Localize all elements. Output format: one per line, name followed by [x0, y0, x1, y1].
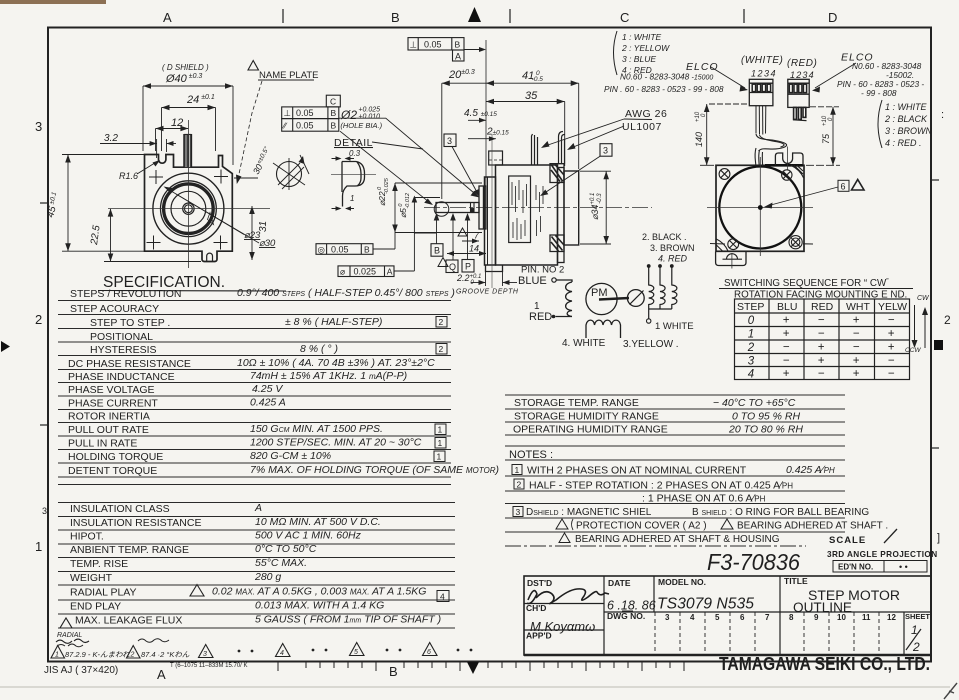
svg-text:8: 8: [789, 613, 794, 622]
svg-text:- 99 - 808: - 99 - 808: [861, 88, 897, 98]
svg-text:3 : BROWN: 3 : BROWN: [885, 126, 933, 136]
svg-text:MODEL NO.: MODEL NO.: [658, 577, 706, 587]
awg leader 1: [545, 119, 624, 146]
svg-text:0.425 A: 0.425 A: [250, 397, 286, 409]
rev triangle 5: [350, 643, 365, 656]
winding hatch: [512, 180, 543, 240]
notes dash-dot bottom line: [505, 545, 806, 547]
svg-text:HYSTERESIS: HYSTERESIS: [90, 344, 157, 356]
svg-text:HALF - STEP ROTATION : 2: HALF - STEP ROTATION : 2 PHASES ON AT 0.…: [529, 480, 793, 492]
common join wire: [649, 308, 672, 310]
svg-text:10Ω ± 10% ( 4A. 70 4B ±3%: 10Ω ± 10% ( 4A. 70 4B ±3% ) AT. 23°±2°C: [237, 357, 435, 369]
svg-text:B: B: [331, 121, 337, 131]
svg-text:2: 2: [439, 317, 444, 327]
datum frame stack: [282, 107, 339, 131]
svg-text:7% MAX. OF HOLDING TORQUE (: 7% MAX. OF HOLDING TORQUE (OF SAME MOTOR…: [250, 464, 499, 476]
phase coil E: [672, 267, 677, 309]
note triangle bearing housing: [559, 533, 570, 543]
svg-text:+: +: [853, 315, 860, 327]
detail shaft profile: [342, 162, 365, 207]
svg-text:−: −: [888, 355, 895, 367]
svg-text:+0.010: +0.010: [358, 114, 380, 121]
top name plate tab: [489, 151, 503, 165]
svg-text:SHEET: SHEET: [905, 612, 930, 621]
svg-text:4. RED: 4. RED: [658, 254, 688, 264]
groove depth arrows: [471, 282, 486, 284]
svg-text:1: 1: [438, 438, 443, 448]
svg-text:+: +: [853, 368, 860, 380]
svg-text:MAX. LEAKAGE FLUX: MAX. LEAKAGE FLUX: [75, 615, 182, 627]
svg-text:+0.025: +0.025: [358, 107, 380, 114]
phase coil A (left): [556, 280, 573, 317]
svg-text:A: A: [163, 10, 172, 25]
svg-text:⌀30: ⌀30: [259, 238, 276, 249]
bearing clip top: [550, 164, 564, 183]
svg-text:DATE: DATE: [608, 578, 631, 588]
svg-text:AWG 26: AWG 26: [625, 108, 667, 120]
svg-text:2: 2: [747, 342, 755, 354]
stator winding block: [509, 176, 531, 243]
svg-text:(WHITE): (WHITE): [741, 55, 783, 66]
warning triangle (leakage flux): [60, 618, 72, 628]
svg-text:PIN . 60 - 8283 - 0523 - 99 -: PIN . 60 - 8283 - 0523 - 99 - 808: [604, 84, 724, 94]
svg-text:+: +: [783, 368, 790, 380]
svg-text:TITLE: TITLE: [784, 576, 808, 586]
svg-text:ROTOR INERTIA: ROTOR INERTIA: [68, 411, 150, 423]
awg leader 2: [571, 126, 624, 148]
svg-text:CH'D: CH'D: [526, 603, 546, 613]
svg-text:74mH ± 15% AT 1KHz. 1: 74mH ± 15% AT 1KHz. 1 mA(P-P): [250, 370, 407, 382]
warning triangle (radial play): [190, 585, 204, 597]
radial squiggle: [56, 639, 89, 643]
svg-text:Ø2: Ø2: [340, 108, 357, 122]
warning triangle at flange: [458, 228, 467, 236]
svg-text:C: C: [620, 10, 629, 25]
phase coil B (bottom): [586, 320, 621, 338]
svg-text:PHASE INDUCTANCE: PHASE INDUCTANCE: [68, 371, 175, 383]
svg-text:2 : YELLOW: 2 : YELLOW: [621, 43, 670, 53]
ref 6 warning triangle: [852, 180, 865, 191]
svg-text:+: +: [818, 342, 825, 354]
rev triangle 1: [51, 646, 65, 659]
svg-text:TAMAGAWA SEIKI CO., LTD.: TAMAGAWA SEIKI CO., LTD.: [719, 653, 930, 674]
30 deg orientation detail circle: [277, 162, 302, 187]
30 deg detail lines: [273, 155, 309, 190]
front circles: [153, 173, 224, 244]
svg-text:8 % ( ° ): 8 % ( ° ): [300, 343, 338, 355]
dwg no dashed dividers: [655, 612, 879, 655]
bottom ear: [486, 265, 503, 272]
svg-text:⊥: ⊥: [410, 40, 418, 50]
phase coil C: [649, 267, 654, 309]
note ref box 2 (step to step): [436, 317, 447, 328]
svg-text:BEARING ADHERED AT SHAFT & HOU: BEARING ADHERED AT SHAFT & HOUSING: [575, 534, 780, 545]
svg-text:2: 2: [130, 652, 135, 659]
svg-text:3: 3: [35, 119, 42, 134]
front centerline horizontal: [108, 208, 270, 210]
svg-text:D: D: [828, 10, 837, 25]
svg-text:+: +: [783, 315, 790, 327]
lead wires group 1: [532, 134, 538, 165]
white connector teeth: [752, 84, 770, 91]
svg-text:1: 1: [35, 539, 42, 554]
svg-text:500 V AC 1 MIN.: 500 V AC 1 MIN. 60Hz: [255, 530, 362, 542]
svg-text:1 WHITE: 1 WHITE: [655, 321, 694, 332]
note 1 box: [512, 465, 522, 475]
svg-text:INSULATION CLASS: INSULATION CLASS: [70, 503, 170, 515]
svg-text:− 40°C TO +65°C: − 40°C TO +65°C: [713, 397, 796, 409]
blue terminal: [552, 278, 556, 282]
rotor disc: [627, 290, 644, 307]
corner pen mark: [944, 683, 957, 699]
svg-text:NAME PLATE: NAME PLATE: [259, 70, 318, 81]
PM rotor circle: [586, 283, 617, 314]
svg-text:PULL IN RATE: PULL IN RATE: [68, 438, 137, 450]
svg-text:(HOLE BIA.): (HOLE BIA.): [340, 121, 382, 130]
svg-text:1: 1: [437, 452, 442, 462]
svg-text:2: 2: [517, 480, 522, 490]
tab slot line: [723, 258, 743, 260]
datum leader to face: [464, 49, 482, 51]
svg-text:JIS AJ ( 37×420): JIS AJ ( 37×420): [44, 665, 118, 676]
svg-text:3: 3: [748, 356, 755, 368]
bottom ruler ticks: [278, 662, 684, 671]
svg-text:NOTES :: NOTES :: [509, 449, 553, 461]
svg-text:4 : RED: 4 : RED: [622, 65, 652, 75]
svg-text:2: 2: [944, 313, 951, 327]
svg-text:R1.6: R1.6: [119, 171, 138, 181]
svg-text:5: 5: [354, 649, 358, 656]
svg-text:A: A: [387, 267, 393, 277]
svg-text:DETENT TORQUE: DETENT TORQUE: [68, 465, 157, 477]
svg-text:10: 10: [837, 613, 846, 622]
svg-text:0 TO 95 % RH: 0 TO 95 % RH: [732, 411, 800, 423]
red connector teeth: [789, 84, 806, 92]
svg-text:◎: ◎: [318, 244, 326, 254]
svg-text:( D SHIELD ): ( D SHIELD ): [162, 63, 209, 72]
svg-text:T (6–1075 11–833M 15.70/ K: T (6–1075 11–833M 15.70/ K: [170, 663, 248, 669]
svg-text:⌀: ⌀: [340, 267, 346, 277]
svg-text:3.2: 3.2: [104, 133, 118, 144]
svg-text:−: −: [783, 355, 790, 367]
note ref box 1 (holding): [434, 451, 445, 462]
svg-text:RADIAL PLAY: RADIAL PLAY: [70, 587, 137, 599]
svg-text:4. WHITE: 4. WHITE: [562, 338, 606, 349]
svg-text:CCW: CCW: [905, 347, 921, 354]
zone ticks left: [40, 203, 49, 425]
rear ring: [558, 168, 565, 263]
svg-text::: :: [941, 109, 944, 121]
svg-text:: 1 PHASE ON AT: : 1 PHASE ON AT 0.6 A∕PH: [642, 493, 766, 505]
svg-text:B: B: [455, 40, 461, 50]
switching header row: [737, 301, 907, 313]
svg-text:0°C TO 50°C: 0°C TO 50°C: [255, 543, 317, 555]
svg-text:HOLDING TORQUE: HOLDING TORQUE: [68, 451, 163, 463]
rear cap: [564, 171, 579, 245]
svg-text:6: 6: [740, 613, 745, 622]
svg-text:+: +: [888, 328, 895, 340]
fiducial triangle bottom: [467, 662, 479, 674]
svg-text:1234: 1234: [751, 69, 777, 79]
red terminal: [552, 315, 556, 319]
spec insulation rows: [42, 502, 441, 627]
white connector body: [749, 79, 773, 105]
screw top-left: [719, 169, 730, 180]
svg-text:PIN. NO 2: PIN. NO 2: [521, 265, 564, 276]
rear top tab with U slot: [775, 153, 803, 165]
phase coil D: [660, 267, 665, 309]
groove depth extension lines: [486, 272, 503, 287]
rear view square body: [716, 165, 804, 251]
svg-text:1200 STEP/SEC. MIN. AT 20 ~: 1200 STEP/SEC. MIN. AT 20 ~ 30°C: [250, 437, 422, 449]
fiducial square right: [934, 340, 943, 350]
svg-text:4: 4: [690, 613, 695, 622]
svg-text:+: +: [888, 342, 895, 354]
svg-text:4.25 V: 4.25 V: [252, 383, 283, 395]
svg-text:B: B: [389, 664, 398, 679]
svg-text:A: A: [254, 502, 262, 514]
svg-text:5: 5: [715, 613, 720, 622]
svg-text:1: 1: [55, 652, 59, 659]
scale slash: [884, 529, 897, 543]
tab hump: [727, 254, 738, 259]
tab centerline: [731, 253, 733, 269]
svg-text:END PLAY: END PLAY: [70, 601, 121, 613]
svg-text:3: 3: [447, 136, 452, 146]
svg-text:ANBIENT TEMP. RANGE: ANBIENT TEMP. RANGE: [70, 544, 189, 556]
elco right leader: [815, 63, 856, 88]
datum box concentricity: [316, 244, 373, 255]
svg-text:± 8 % ( HALF-STEP): ± 8 % ( HALF-STEP): [285, 316, 382, 328]
lead wires group 2: [559, 132, 565, 165]
svg-text:3 : BLUE: 3 : BLUE: [622, 54, 656, 64]
fiducial triangle top: [468, 7, 481, 22]
svg-text:1234: 1234: [790, 70, 815, 80]
svg-text:11: 11: [862, 613, 871, 622]
thin extension line x492: [491, 134, 493, 288]
note ref box 2 (hysteresis): [436, 344, 447, 355]
svg-text:0.05: 0.05: [331, 244, 349, 254]
svg-text:F3-70836: F3-70836: [707, 549, 800, 575]
svg-text:]: ]: [937, 532, 940, 544]
svg-text:3.YELLOW .: 3.YELLOW .: [623, 339, 679, 350]
phase wire terminals: [647, 264, 651, 268]
svg-text:CW: CW: [917, 295, 930, 302]
datum frame C box: [326, 95, 340, 107]
red connector body: [788, 79, 809, 107]
main body: [496, 165, 558, 265]
name plate leader: [238, 81, 263, 181]
svg-text:GROOVE DEPTH: GROOVE DEPTH: [456, 289, 519, 296]
svg-text:ED'N NO.: ED'N NO.: [838, 563, 873, 572]
svg-text:20 TO 80 % RH: 20 TO 80 % RH: [728, 424, 803, 436]
ref 3 box right: [600, 144, 612, 157]
ref 3 box left: [444, 134, 456, 147]
svg-text:3. BROWN: 3. BROWN: [650, 243, 695, 253]
svg-text:4: 4: [440, 592, 445, 602]
white connector wires: [756, 106, 766, 135]
svg-text:⊥: ⊥: [284, 108, 292, 118]
svg-text:A: A: [157, 667, 166, 682]
svg-text:2 : BLACK: 2 : BLACK: [884, 114, 928, 124]
svg-text:3: 3: [665, 613, 670, 622]
scan artifact brown bar: [0, 0, 106, 4]
svg-text:YELW: YELW: [878, 301, 907, 313]
mounting hole cross TL: [149, 170, 163, 184]
svg-text:4: 4: [748, 369, 754, 381]
svg-text:140: 140: [694, 132, 704, 147]
svg-text:150 GCM MIN. AT 1500 PPS.: 150 GCM MIN. AT 1500 PPS.: [250, 423, 383, 435]
dwg no column numbers: [665, 613, 896, 622]
svg-text:3: 3: [516, 507, 521, 517]
dim 75: [806, 107, 840, 166]
title block outer box: [524, 576, 931, 655]
front centerline vertical: [187, 120, 189, 268]
svg-text:−: −: [888, 368, 895, 380]
svg-text:WITH 2 PHASES ON AT NOMI: WITH 2 PHASES ON AT NOMINAL CURRENT: [527, 465, 747, 477]
svg-text:STEP TO STEP .: STEP TO STEP .: [90, 317, 170, 329]
svg-text:75: 75: [821, 133, 831, 144]
svg-text:−: −: [783, 342, 790, 354]
svg-text:0.025: 0.025: [354, 267, 377, 277]
rear main circle: [719, 167, 801, 249]
svg-text:STEP ACOURACY: STEP ACOURACY: [70, 303, 159, 315]
svg-text:1: 1: [438, 425, 443, 435]
screw bottom-right: [789, 236, 813, 249]
svg-text:RED: RED: [811, 301, 834, 313]
detail centerline: [331, 173, 376, 175]
side centerline: [424, 207, 652, 209]
red connector stub pins: [794, 107, 806, 119]
rev 4 dots: [312, 649, 315, 652]
warning triangle below shaft: [438, 258, 448, 267]
shaft groove ring: [471, 203, 475, 213]
svg-text:87.2.9 - K-んまわれ: 87.2.9 - K-んまわれ: [65, 650, 130, 659]
svg-text:6: 6: [427, 649, 431, 656]
svg-text:3RD ANGLE PROJECTION: 3RD ANGLE PROJECTION: [827, 550, 938, 559]
svg-text:PHASE CURRENT: PHASE CURRENT: [68, 398, 158, 410]
svg-text:3: 3: [203, 651, 207, 658]
svg-text:RED: RED: [529, 311, 552, 323]
rear crosshair vertical: [759, 157, 761, 256]
mounting face extension line: [485, 40, 487, 190]
svg-text:+: +: [818, 355, 825, 367]
rev triangle 2: [127, 646, 141, 659]
svg-text:−: −: [818, 328, 825, 340]
corner gusset top-right: [791, 165, 804, 178]
datum box top (perpendicularity): [408, 38, 464, 61]
note ref box 4 (radial play): [437, 591, 449, 602]
svg-text:POSITIONAL: POSITIONAL: [90, 331, 153, 343]
switching data rows: [747, 315, 895, 381]
bearing clip bottom: [550, 235, 564, 252]
svg-text:−: −: [853, 328, 860, 340]
elco left leader: [711, 67, 745, 88]
rev triangle 3: [199, 645, 214, 658]
svg-text:INSULATION RESISTANCE: INSULATION RESISTANCE: [70, 517, 201, 529]
svg-text:DETAIL: DETAIL: [334, 137, 373, 149]
faint page separator line: [0, 686, 950, 688]
svg-text:DST'D: DST'D: [527, 578, 552, 588]
note triangle bearing shaft: [721, 519, 733, 529]
svg-text:B: B: [364, 244, 370, 254]
svg-text:C: C: [330, 97, 336, 107]
P ref box: [462, 260, 474, 273]
svg-text:−: −: [818, 315, 825, 327]
svg-text:RADIAL: RADIAL: [57, 632, 82, 639]
svg-text:280 g: 280 g: [254, 571, 281, 583]
svg-text:P: P: [465, 262, 471, 272]
front view body outline: [145, 155, 233, 262]
svg-text:−: −: [853, 342, 860, 354]
second long leader: [340, 131, 430, 203]
mounting hole cross BR: [214, 236, 228, 250]
concentricity leader: [373, 248, 395, 250]
svg-text:Q: Q: [449, 262, 456, 272]
shaft end circle: [434, 202, 449, 217]
svg-text:0.9°/ 400 STEPS ( HALF-STEP: 0.9°/ 400 STEPS ( HALF-STEP 0.45°/ 800 S…: [237, 287, 455, 299]
svg-text:1: 1: [350, 194, 354, 203]
svg-text:0.05: 0.05: [296, 121, 314, 131]
svg-text:PM: PM: [591, 287, 608, 299]
hole callout leader: [339, 118, 477, 195]
switching table grid: [735, 299, 910, 380]
svg-text:OPERATING HUMIDITY RANGE: OPERATING HUMIDITY RANGE: [513, 424, 668, 436]
datum box runout: [338, 266, 394, 277]
svg-text:WEIGHT: WEIGHT: [70, 572, 113, 584]
svg-text:0.02 MAX. AT A 0.5KG , 0: 0.02 MAX. AT A 0.5KG , 0.003 MAX. AT A 1…: [212, 586, 426, 598]
screw bottom-left: [710, 239, 739, 250]
svg-text:0.05: 0.05: [296, 108, 314, 118]
spec row: steps/revolution: [68, 287, 499, 477]
svg-text:+: +: [853, 355, 860, 367]
svg-text:3: 3: [603, 146, 608, 156]
svg-text:2. BLACK .: 2. BLACK .: [642, 232, 687, 242]
svg-text:87.4 ·2 °Kわん: 87.4 ·2 °Kわん: [141, 650, 190, 659]
svg-text:−: −: [888, 315, 895, 327]
svg-text:PHASE VOLTAGE: PHASE VOLTAGE: [68, 384, 155, 396]
svg-text:PULL OUT RATE: PULL OUT RATE: [68, 424, 149, 436]
svg-text:HIPOT.: HIPOT.: [70, 531, 104, 543]
svg-text:2: 2: [912, 640, 920, 654]
svg-text:0.05: 0.05: [424, 40, 442, 50]
svg-text:1 : WHITE: 1 : WHITE: [622, 32, 662, 42]
note 2 box: [514, 479, 524, 489]
shaft side: [436, 203, 479, 213]
svg-text:B: B: [331, 108, 337, 118]
rev triangle 4: [276, 644, 291, 657]
svg-text:STEPS / REVOLUTION: STEPS / REVOLUTION: [70, 288, 181, 300]
svg-text:B: B: [434, 246, 440, 256]
svg-text:(RED): (RED): [787, 58, 817, 69]
svg-text:• •: • •: [899, 562, 908, 572]
note ref box 1 (pull out): [435, 424, 446, 435]
svg-text:DWG NO.: DWG NO.: [607, 611, 645, 621]
svg-text:UL1007: UL1007: [622, 121, 662, 133]
rev 3 dots: [238, 650, 241, 653]
title block inner dividers: [524, 576, 931, 655]
svg-text:0.425 A∕PH: 0.425 A∕PH: [786, 464, 835, 476]
lead list left brace: [614, 31, 618, 75]
zone ticks top: [283, 9, 744, 23]
svg-text:STORAGE HUMIDITY RANGE: STORAGE HUMIDITY RANGE: [514, 411, 659, 423]
svg-text:14: 14: [469, 244, 479, 254]
svg-text:2: 2: [439, 344, 444, 354]
rev triangle 6: [423, 643, 438, 656]
svg-text:TS3079 N535: TS3079 N535: [657, 596, 754, 613]
svg-text:2: 2: [35, 312, 42, 327]
svg-text:BLUE: BLUE: [518, 275, 547, 287]
